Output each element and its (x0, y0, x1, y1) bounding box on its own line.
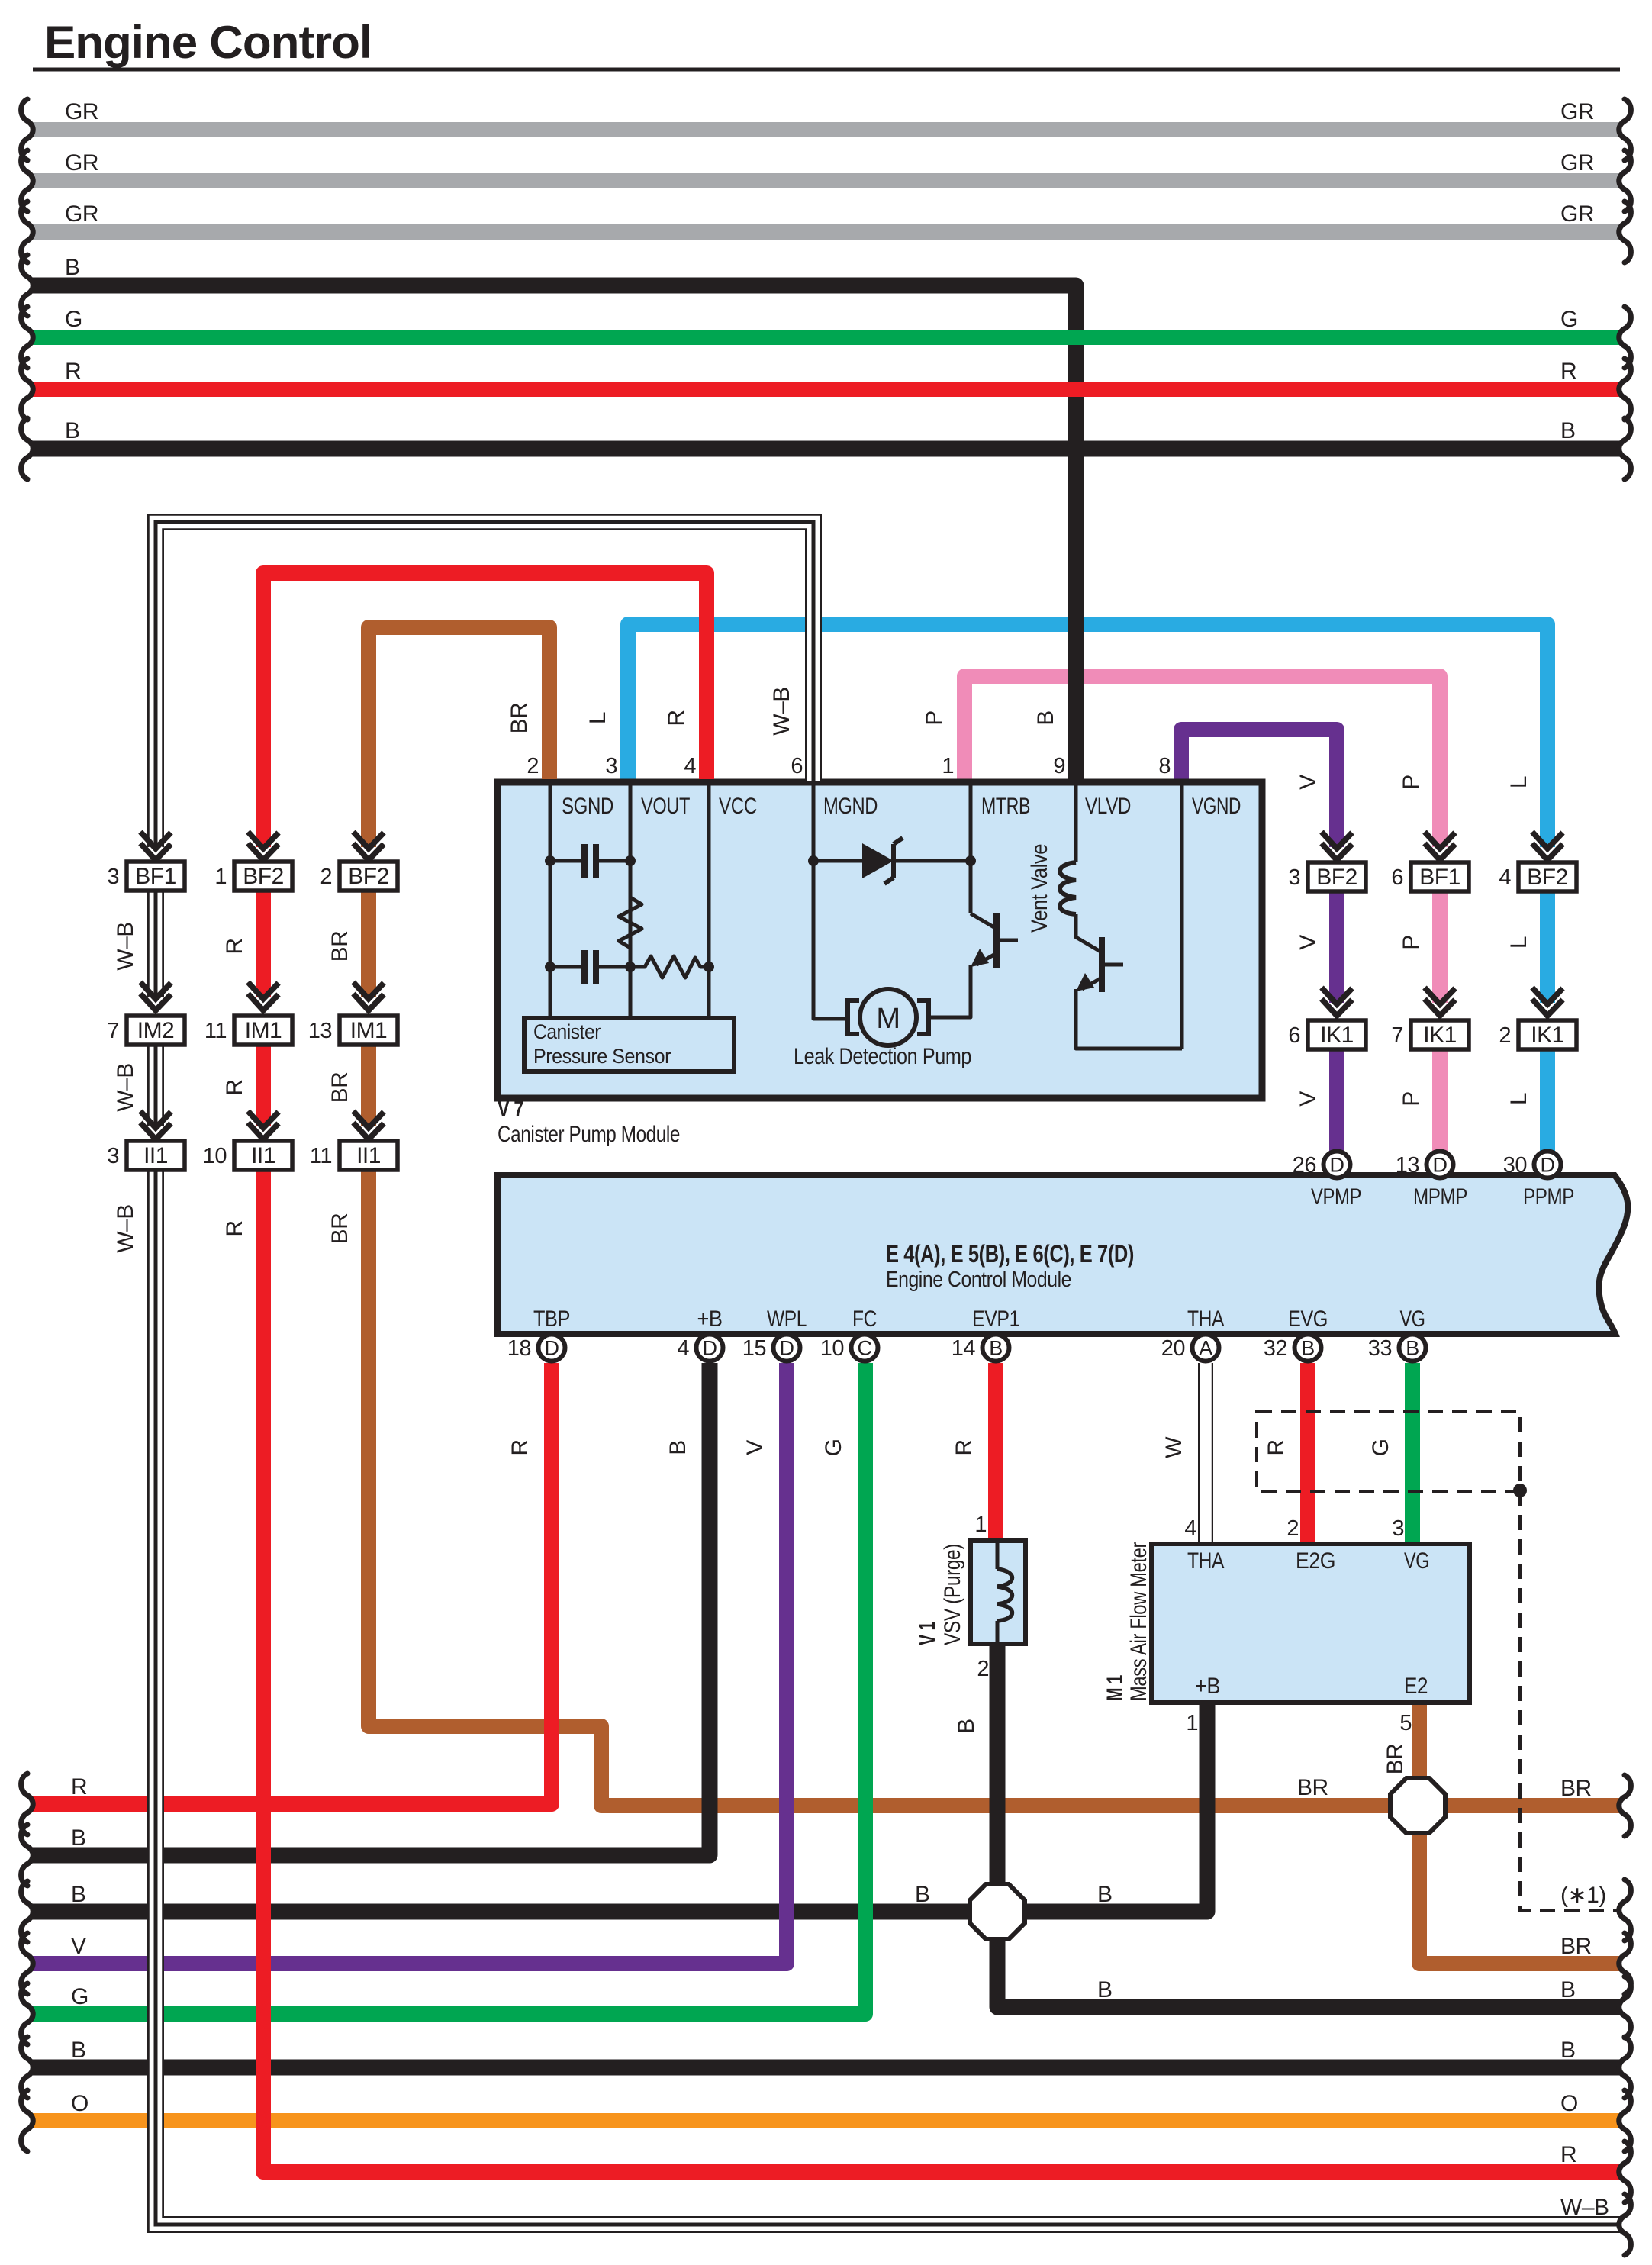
svg-text:VLVD: VLVD (1085, 794, 1131, 819)
svg-text:G: G (1560, 307, 1578, 332)
svg-text:V: V (1296, 775, 1321, 790)
resistor R-vertical on VOUT line (619, 897, 642, 948)
svg-text:BR: BR (507, 703, 532, 734)
svg-text:15: 15 (742, 1336, 766, 1361)
svg-text:3: 3 (1392, 1516, 1404, 1541)
svg-text:B: B (71, 1825, 86, 1851)
connector chain at x=204 : BF1/IM2/II1 (W–B) (146, 847, 166, 863)
svg-text:1: 1 (214, 865, 227, 889)
svg-text:1: 1 (974, 1513, 987, 1537)
svg-text:BF1: BF1 (135, 864, 176, 889)
junction dots upper (545, 855, 555, 866)
zener diode (MGND to MTRB) (813, 859, 862, 863)
svg-text:EVG: EVG (1288, 1306, 1328, 1332)
ECM pin 32(B) EVG (1295, 1335, 1322, 1361)
svg-text:GR: GR (65, 150, 98, 176)
svg-text:EVP1: EVP1 (972, 1306, 1019, 1332)
svg-text:BR: BR (327, 931, 353, 962)
svg-text:10: 10 (820, 1336, 844, 1361)
svg-text:BR: BR (1297, 1775, 1328, 1800)
internal MTRB line (969, 785, 973, 913)
svg-text:IM1: IM1 (245, 1018, 282, 1043)
svg-text:4: 4 (677, 1336, 689, 1361)
svg-text:R: R (1560, 2142, 1576, 2167)
svg-text:BR: BR (1560, 1776, 1592, 1801)
svg-text:B: B (1560, 1977, 1576, 2002)
svg-text:18: 18 (507, 1336, 531, 1361)
svg-text:20: 20 (1161, 1336, 1185, 1361)
svg-text:E2G: E2G (1296, 1548, 1335, 1574)
svg-text:R: R (1560, 359, 1576, 384)
ECM pin 15(D) WPL (774, 1335, 800, 1361)
resistor R-horizontal between VOUT and VCC (630, 956, 709, 978)
svg-text:P: P (1399, 1091, 1424, 1107)
svg-text:G: G (65, 307, 82, 332)
svg-text:E 4(A), E 5(B), E 6(C), E 7(D): E 4(A), E 5(B), E 6(C), E 7(D) (886, 1240, 1134, 1268)
svg-text:MTRB: MTRB (981, 794, 1030, 819)
svg-text:2: 2 (1286, 1516, 1299, 1541)
ECM top pin 13(D) MPMP (1427, 1152, 1454, 1178)
left edge squiggles (bottom rows) (21, 1774, 34, 1835)
wire O row (orange) (32, 2113, 1620, 2128)
svg-text:G: G (821, 1439, 846, 1457)
svg-text:13: 13 (308, 1019, 332, 1043)
svg-text:P: P (922, 710, 947, 726)
VSV coil (996, 1543, 1000, 1569)
svg-text:VG: VG (1400, 1306, 1425, 1332)
svg-text:IK1: IK1 (1531, 1023, 1564, 1048)
ECM pin 33(B) VG (1399, 1335, 1426, 1361)
svg-text:VPMP: VPMP (1311, 1184, 1361, 1210)
svg-text:13: 13 (1396, 1153, 1419, 1178)
svg-text:BF2: BF2 (243, 864, 284, 889)
svg-text:MPMP: MPMP (1413, 1184, 1467, 1210)
node dot on dashed box corner (1513, 1484, 1527, 1497)
svg-text:L: L (1506, 1093, 1531, 1105)
ECM top pin 26(D) VPMP (1324, 1152, 1351, 1178)
svg-text:3: 3 (605, 754, 617, 778)
svg-text:SGND: SGND (562, 794, 613, 819)
wire B row 4 turning down into pin 9 VLVD (32, 285, 1076, 781)
svg-text:M: M (876, 1003, 900, 1035)
svg-text:B: B (1560, 418, 1576, 443)
svg-text:THA: THA (1187, 1548, 1224, 1574)
svg-text:2: 2 (977, 1657, 989, 1681)
svg-text:TBP: TBP (533, 1306, 570, 1332)
svg-text:P: P (1399, 775, 1424, 790)
svg-text:7: 7 (107, 1019, 119, 1043)
wire GR row 1 (top) (32, 122, 1620, 137)
svg-text:VSV (Purge): VSV (Purge) (940, 1544, 965, 1645)
junction J2 (BR wires) (1390, 1778, 1445, 1833)
junction J1 (B wires) (970, 1884, 1025, 1939)
svg-text:II1: II1 (356, 1143, 381, 1168)
capacitor C-upper between SGND and VOUT (550, 859, 582, 863)
svg-text:W–B: W–B (113, 922, 138, 971)
svg-text:GR: GR (1560, 99, 1594, 124)
right edge squiggles (top rows) (1619, 99, 1631, 160)
svg-text:D: D (1433, 1154, 1448, 1177)
svg-text:2: 2 (1499, 1023, 1511, 1048)
wire B row 7 (32, 441, 1620, 457)
svg-text:7: 7 (1391, 1023, 1403, 1048)
svg-text:R: R (952, 1439, 977, 1455)
ECM pin 20(A) THA (1193, 1335, 1219, 1361)
svg-text:FC: FC (852, 1306, 877, 1332)
svg-text:M 1: M 1 (1103, 1675, 1128, 1701)
svg-text:W–B: W–B (1560, 2195, 1609, 2220)
svg-text:B: B (65, 255, 80, 280)
svg-text:MGND: MGND (823, 794, 878, 819)
svg-text:II1: II1 (143, 1143, 168, 1168)
svg-text:GR: GR (65, 99, 98, 124)
svg-text:Canister: Canister (533, 1020, 601, 1043)
wire R from ECM EVP1 pin 14 to VSV pin 1 (988, 1363, 1003, 1541)
svg-text:VG: VG (1404, 1548, 1429, 1574)
svg-text:Canister Pump Module: Canister Pump Module (498, 1122, 680, 1147)
svg-text:B: B (1301, 1337, 1315, 1360)
svg-text:L: L (1506, 936, 1531, 949)
svg-text:V 1: V 1 (915, 1622, 940, 1645)
svg-text:IK1: IK1 (1423, 1023, 1457, 1048)
svg-text:VOUT: VOUT (641, 794, 690, 819)
wire B row (bottom1) to ECM +B pin 4 (32, 1363, 710, 1855)
svg-text:W–B: W–B (769, 687, 794, 736)
svg-text:VGND: VGND (1192, 794, 1241, 819)
wire G row 5 (32, 330, 1620, 345)
wire BR from V7 SGND pin 2 through BF2/IM1/II1 down to BR row (369, 627, 1620, 1806)
svg-text:R: R (65, 359, 81, 384)
svg-text:GR: GR (1560, 150, 1594, 176)
svg-text:4: 4 (1499, 865, 1511, 890)
wire V (purple) from pin 8 of V7 to VPMP chain (1181, 730, 1337, 1154)
svg-text:VCC: VCC (719, 794, 757, 819)
svg-text:2: 2 (527, 754, 539, 778)
connector chain at x=1887 : BF1/IK1 (P) (1430, 847, 1450, 864)
svg-text:PPMP: PPMP (1523, 1184, 1574, 1210)
svg-text:2: 2 (320, 865, 332, 889)
svg-text:V: V (1296, 935, 1321, 950)
svg-text:26: 26 (1293, 1153, 1316, 1178)
wire L (blue) from pin 3 of V7 to PPMP chain (628, 624, 1547, 1154)
svg-text:Engine Control: Engine Control (44, 17, 372, 68)
svg-text:+B: +B (697, 1306, 723, 1332)
svg-text:3: 3 (1288, 865, 1300, 890)
svg-text:6: 6 (1391, 865, 1403, 890)
svg-text:B: B (1560, 2038, 1576, 2063)
Mass Air Flow Meter M1 box (1151, 1544, 1470, 1703)
internal SGND line (549, 785, 552, 1018)
svg-text:G: G (71, 1984, 89, 2009)
connector chain at x=345 : BF2/IM1/II1 (R) (253, 847, 273, 863)
svg-text:O: O (1560, 2091, 1578, 2116)
svg-text:11: 11 (204, 1019, 227, 1043)
svg-text:B: B (954, 1719, 979, 1734)
wire R from ECM EVG pin 32 to MAF E2G pin 2 (1300, 1363, 1315, 1544)
svg-text:3: 3 (107, 1144, 119, 1168)
module V7 Canister Pump Module box (498, 782, 1262, 1098)
svg-text:R: R (222, 1220, 247, 1236)
svg-text:10: 10 (203, 1144, 227, 1168)
svg-text:B: B (71, 1882, 86, 1907)
svg-text:(∗1): (∗1) (1560, 1883, 1606, 1908)
svg-text:D: D (780, 1337, 794, 1360)
svg-text:11: 11 (310, 1144, 332, 1168)
svg-text:3: 3 (107, 865, 119, 889)
ECM pin 18(D) TBP (539, 1335, 565, 1361)
svg-text:W: W (1161, 1436, 1187, 1458)
wire W (white) from ECM THA pin 20 to MAF THA pin 4 (1198, 1363, 1213, 1544)
svg-text:IK1: IK1 (1320, 1023, 1354, 1048)
svg-text:B: B (1097, 1882, 1113, 1907)
svg-text:B: B (665, 1440, 691, 1455)
svg-text:R: R (222, 938, 247, 954)
svg-text:9: 9 (1053, 754, 1065, 778)
connector chain at x=2028 : BF2/IK1 (L) (1538, 847, 1557, 864)
svg-text:30: 30 (1503, 1153, 1527, 1178)
svg-text:GR: GR (1560, 201, 1594, 227)
svg-text:32: 32 (1264, 1336, 1287, 1361)
svg-text:B: B (1097, 1977, 1113, 2002)
svg-text:IM1: IM1 (350, 1018, 388, 1043)
svg-text:+B: +B (1195, 1674, 1220, 1699)
wire B from VSV pin 2 down through junction to right edge (997, 1644, 1620, 2007)
svg-text:Leak Detection Pump: Leak Detection Pump (794, 1044, 971, 1069)
svg-text:BF2: BF2 (348, 864, 389, 889)
wire R row 6 (32, 382, 1620, 397)
svg-text:BR: BR (1383, 1744, 1408, 1775)
wire P (pink) from pin 1 of V7 to MPMP chain (964, 676, 1440, 1154)
svg-text:R: R (507, 1439, 533, 1455)
svg-text:W–B: W–B (113, 1063, 138, 1112)
svg-text:Pressure Sensor: Pressure Sensor (533, 1045, 671, 1068)
wire R from V7 VCC pin 4 through BF2/IM1/II1 down to bottom R row (263, 573, 1620, 2172)
svg-text:Engine Control Module: Engine Control Module (886, 1268, 1071, 1292)
vent valve coil on VLVD line (1074, 785, 1078, 862)
svg-text:33: 33 (1368, 1336, 1392, 1361)
svg-text:THA: THA (1187, 1306, 1224, 1332)
ECM top pin 30(D) PPMP (1534, 1152, 1561, 1178)
svg-text:6: 6 (791, 754, 803, 778)
wire V row to ECM WPL pin 15 (32, 1363, 787, 1964)
svg-text:1: 1 (942, 754, 954, 778)
svg-text:E2: E2 (1404, 1674, 1428, 1699)
dashed option box around EVG/VG wires (1257, 1412, 1520, 1491)
wire B row (bottom3) (32, 2060, 1620, 2076)
wire G from ECM VG pin 33 to MAF VG pin 3 (1405, 1363, 1420, 1544)
svg-text:L: L (1506, 776, 1531, 788)
transistor Q1 (pump motor driver) (971, 913, 997, 929)
svg-text:5: 5 (1399, 1711, 1412, 1735)
svg-text:R: R (664, 710, 689, 726)
svg-text:B: B (65, 418, 80, 443)
svg-text:Mass Air Flow Meter: Mass Air Flow Meter (1126, 1542, 1151, 1701)
svg-text:D: D (545, 1337, 559, 1360)
svg-text:C: C (858, 1337, 872, 1360)
svg-text:R: R (222, 1079, 247, 1095)
svg-text:A: A (1199, 1337, 1212, 1360)
svg-text:V: V (742, 1440, 768, 1455)
svg-text:D: D (703, 1337, 717, 1360)
connector chain at x=483 : BF2/IM1/II1 (BR) (359, 847, 378, 863)
svg-text:II1: II1 (251, 1143, 275, 1168)
svg-text:P: P (1399, 935, 1424, 950)
ECM pin 10(C) FC (852, 1335, 878, 1361)
svg-text:D: D (1541, 1154, 1555, 1177)
svg-text:G: G (1368, 1439, 1393, 1457)
svg-text:W–B: W–B (113, 1204, 138, 1253)
svg-text:V 7: V 7 (498, 1097, 523, 1122)
capacitor C-lower between SGND and VOUT (550, 965, 582, 969)
wire R row to ECM TBP pin 18 (32, 1363, 552, 1804)
svg-text:BR: BR (327, 1072, 353, 1104)
svg-text:B: B (989, 1337, 1003, 1360)
svg-text:8: 8 (1158, 754, 1171, 778)
svg-text:BF2: BF2 (1316, 865, 1357, 890)
motor M (leak detection pump) (860, 989, 916, 1046)
title underline rule (33, 68, 1620, 72)
svg-text:B: B (915, 1882, 930, 1907)
wire GR row 2 (32, 173, 1620, 188)
ECM pin 4(D) +B (697, 1335, 723, 1361)
svg-text:B: B (1406, 1337, 1419, 1360)
left edge squiggles (top rows) (21, 99, 34, 160)
svg-text:6: 6 (1288, 1023, 1300, 1048)
svg-text:BR: BR (327, 1213, 353, 1245)
dashed wire (*1) to right edge (1520, 1490, 1617, 1910)
svg-text:B: B (71, 2038, 86, 2063)
svg-text:WPL: WPL (767, 1306, 807, 1332)
svg-text:O: O (71, 2091, 89, 2116)
svg-text:L: L (585, 712, 610, 724)
Canister Pressure Sensor box (524, 1018, 734, 1071)
internal VGND line (1180, 785, 1184, 1049)
svg-text:4: 4 (1184, 1516, 1196, 1541)
wire G row to ECM FC pin 10 (32, 1363, 865, 2014)
internal VOUT line (629, 785, 633, 1018)
wire W-B from V7 MGND pin 6 through BF1/IM2/II1 down and along bottom to right edge (156, 522, 1620, 2225)
internal VCC line (707, 785, 711, 1018)
svg-text:14: 14 (952, 1336, 976, 1361)
wire GR row 3 (32, 224, 1620, 240)
wire B row (bottom2) through junction to MAF +B pin 1 (32, 1703, 1207, 1912)
svg-text:1: 1 (1186, 1711, 1198, 1735)
svg-text:V: V (1296, 1091, 1321, 1107)
svg-text:R: R (1264, 1439, 1289, 1455)
svg-text:D: D (1330, 1154, 1344, 1177)
svg-text:R: R (71, 1774, 87, 1799)
internal MGND line (813, 785, 848, 1019)
ECM pin 14(B) EVP1 (983, 1335, 1010, 1361)
svg-text:GR: GR (65, 201, 98, 227)
svg-text:BF2: BF2 (1527, 865, 1568, 890)
svg-text:BR: BR (1560, 1934, 1592, 1959)
svg-text:IM2: IM2 (137, 1018, 175, 1043)
svg-text:BF1: BF1 (1419, 865, 1460, 890)
svg-text:B: B (1033, 710, 1058, 726)
right edge squiggles (bottom rows) (1619, 1775, 1631, 1836)
svg-text:V: V (71, 1934, 86, 1959)
ECM E4(A) E5(B) E6(C) E7(D) Engine Control Module box (498, 1175, 1628, 1334)
transistor Q2 (vent valve driver) (1076, 914, 1102, 952)
wire BR from MAF E2 pin 5 through junction to right edge (1419, 1703, 1620, 1964)
junction dots lower (545, 962, 555, 972)
connector chain at x=1752 : BF2/IK1 (V) (1327, 847, 1347, 864)
VSV V1 (Purge) box (971, 1541, 1026, 1644)
svg-text:4: 4 (684, 754, 696, 778)
svg-text:Vent Valve: Vent Valve (1027, 844, 1052, 933)
